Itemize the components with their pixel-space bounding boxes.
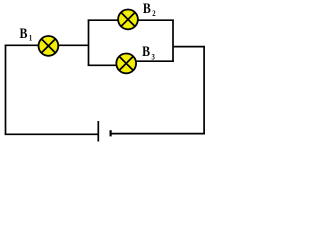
wire: outer left vertical [5,45,7,135]
wire: bottom right horizontal from battery [110,133,205,135]
lamp B3 [116,54,136,74]
svg-text:B2: B2 [143,0,156,18]
wire: outer right vertical [203,46,205,134]
svg-text:B1: B1 [20,25,33,43]
svg-text:B3: B3 [142,43,155,62]
wire: top branch horizontal through B2 [88,19,174,21]
lamp B2 [118,10,138,30]
wire: bottom left horizontal to battery [5,133,98,135]
lamp B1 [39,36,59,56]
wire: parallel box right vertical [172,20,174,63]
wire: bottom branch left segment to B3 [88,64,118,66]
battery: long plate [97,121,99,142]
wire: parallel box left vertical [88,20,90,67]
battery: short plate [109,130,111,136]
wire: output horizontal from box to right vertical [173,46,205,48]
wire: top main horizontal through B1 [5,44,89,46]
wire: bottom branch right segment from B3 [135,60,174,62]
